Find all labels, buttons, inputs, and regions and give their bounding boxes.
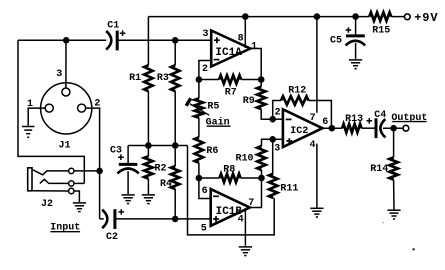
node IC1A inv junction — [196, 76, 203, 83]
svg-text:R5: R5 — [207, 101, 219, 112]
connector J1 XLR body — [41, 83, 92, 134]
wire bias to C3 — [127, 146, 129, 164]
svg-text:R11: R11 — [280, 183, 298, 194]
plus IC2 noninv — [286, 138, 292, 144]
wire R12 left riser — [273, 101, 281, 120]
svg-text:3: 3 — [56, 69, 62, 80]
wire C5 from rail — [355, 17, 357, 35]
resistor R6 — [195, 137, 203, 163]
wire R6 to pin6 node — [198, 163, 200, 178]
wire left branch down to J2 ring — [18, 40, 84, 183]
svg-text:1: 1 — [27, 99, 33, 110]
op-amp IC2 — [283, 109, 323, 147]
svg-text:R10: R10 — [235, 154, 253, 165]
op-amp IC1B — [211, 189, 250, 226]
ground at R14 — [387, 209, 400, 211]
minus IC1B inv — [213, 195, 219, 197]
resistor R11 — [269, 174, 277, 198]
wire J1 pin2 right and down — [86, 108, 100, 219]
capacitor C5 — [346, 34, 365, 37]
svg-text:2: 2 — [94, 99, 100, 110]
underline Gain — [207, 125, 231, 127]
J2 ring contact arm — [40, 179, 69, 183]
wire IC2 pin3 — [273, 138, 283, 140]
resistor R12 — [281, 96, 309, 104]
wire R3 to bias node — [174, 91, 176, 145]
wire R2 top stub — [147, 146, 149, 157]
terminal +9V — [404, 14, 410, 20]
node IC2 output junction — [329, 125, 336, 132]
resistor R14 — [389, 157, 397, 179]
wire J2 ring up-left handled above stub — [74, 182, 84, 184]
wire R15 to +9V terminal — [391, 16, 404, 18]
wire C4 to output terminal — [383, 127, 403, 129]
svg-text:R3: R3 — [157, 73, 169, 84]
svg-text:IC2: IC2 — [290, 126, 308, 137]
stray mark — [413, 248, 415, 250]
J1 pin 3 contact — [62, 88, 70, 96]
ground at R2 — [142, 194, 155, 196]
node IC1B inv junction — [196, 175, 203, 182]
wire IC1B pin4 to ground — [244, 210, 246, 246]
wire R10 top to IC2 pin3 node — [262, 139, 273, 146]
wire R5 top lead — [198, 80, 200, 99]
node IC1B fb junction — [258, 175, 265, 182]
svg-text:R14: R14 — [370, 164, 388, 175]
wire into C2 — [100, 218, 104, 220]
wire input top rail (C1 node) — [18, 39, 106, 41]
capacitor C1 — [106, 31, 111, 50]
pot arrow R5 — [190, 104, 209, 115]
connector J2 jack body — [28, 168, 32, 191]
plus IC1B noninv — [213, 216, 219, 222]
node pin8 rail junction — [242, 13, 249, 20]
resistor R2 — [144, 156, 152, 178]
wire R13 to C4 — [362, 127, 375, 129]
svg-text:C1: C1 — [107, 20, 119, 31]
wire R5 to R6 — [198, 118, 200, 138]
J2 tip contact arm — [33, 170, 69, 175]
svg-text:R6: R6 — [206, 146, 218, 157]
wire IC1A output — [250, 49, 261, 80]
node R3 top junction — [172, 37, 179, 44]
ground at C5 — [349, 59, 362, 61]
resistor R13 — [342, 124, 361, 132]
svg-text:8: 8 — [238, 33, 244, 44]
svg-text:R2: R2 — [154, 164, 166, 175]
svg-text:5: 5 — [201, 223, 207, 234]
svg-text:6: 6 — [322, 117, 328, 128]
node IC2 noninv junction — [269, 136, 276, 143]
wire R7 right lead — [241, 79, 261, 81]
node R4 bottom junction — [172, 216, 179, 223]
wire IC2 pin4 to ground — [316, 144, 318, 208]
terminal Output — [403, 125, 409, 131]
plus C1 — [120, 30, 126, 36]
plus C5 — [346, 27, 352, 33]
wire C3 to ground — [127, 171, 129, 194]
wire bias node — [128, 145, 187, 147]
wire R8 right lead — [241, 177, 262, 179]
resistor R3 — [171, 65, 179, 91]
svg-text:R15: R15 — [372, 26, 390, 37]
wire R8 left lead — [199, 177, 220, 179]
svg-text:C3: C3 — [110, 146, 122, 157]
wire J2 tip to junction — [74, 170, 100, 172]
ground at IC1B pin4 — [239, 246, 252, 248]
wire R1 to bias node — [147, 91, 149, 145]
svg-text:C4: C4 — [374, 110, 386, 121]
node IC2 pin7 rail junction — [314, 13, 321, 20]
svg-text:J2: J2 — [41, 199, 53, 210]
wire IC2 pin2 — [273, 118, 283, 120]
minus IC2 inv — [286, 118, 292, 120]
resistor R15 — [369, 12, 391, 20]
plus C3 — [118, 154, 124, 160]
wire C1 to IC1A pin 3 — [118, 39, 211, 41]
wire R14 to ground — [393, 180, 395, 210]
wire R7 left lead — [199, 79, 219, 81]
wire C5 to ground — [355, 43, 357, 59]
wire rail corner down R1 — [147, 17, 149, 66]
node output junction — [390, 125, 397, 132]
svg-text:6: 6 — [202, 186, 208, 197]
wire J1 pin3 up — [65, 40, 67, 88]
svg-text:C2: C2 — [106, 232, 118, 243]
wire R4 to bottom input — [174, 189, 176, 219]
svg-text:R12: R12 — [288, 86, 306, 97]
op-amp IC1A — [211, 31, 250, 67]
wire R2 to ground — [147, 179, 149, 194]
ground at C3 — [122, 194, 135, 196]
node IC2 inv junction — [269, 116, 276, 123]
resistor R1 — [144, 65, 152, 91]
wire R9 top lead — [260, 80, 262, 87]
svg-text:1: 1 — [251, 42, 257, 53]
svg-text:4: 4 — [309, 140, 315, 151]
ground at IC2 pin4 — [310, 207, 323, 209]
svg-text:R8: R8 — [223, 164, 235, 175]
wire C2 to IC1B pin 5 — [115, 218, 211, 220]
plus C4 — [367, 118, 373, 124]
ground at J1 pin1 — [22, 126, 35, 128]
wire bias reference run — [188, 146, 275, 235]
svg-text:+9V: +9V — [414, 11, 438, 25]
plus IC1A noninv — [214, 37, 220, 43]
J2 ring terminal — [69, 181, 74, 186]
resistor R4 — [171, 166, 179, 189]
svg-text:R4: R4 — [160, 179, 172, 190]
resistor R7 — [219, 75, 241, 83]
capacitor C3 — [119, 163, 138, 166]
J1 pin 1 contact — [45, 104, 53, 112]
resistor R9 — [257, 87, 265, 110]
wire R4 top stub — [174, 146, 176, 167]
wire IC2 output — [322, 127, 342, 129]
node bias R3/R4 — [172, 142, 179, 149]
resistor R8 — [220, 174, 241, 182]
svg-text:7: 7 — [310, 113, 316, 124]
svg-text:R13: R13 — [345, 114, 363, 125]
wire R14 top lead — [393, 128, 395, 157]
J1 pin 2 contact — [78, 104, 86, 112]
node XLR pin3 junction — [63, 37, 70, 44]
wire R11 top lead — [272, 139, 274, 173]
wire filtered V+ rail — [148, 16, 369, 18]
J2 tip terminal — [69, 168, 74, 173]
minus IC1A inv — [214, 59, 220, 61]
underline Output — [392, 121, 426, 123]
wire R12 right to output — [309, 101, 332, 129]
J2 sleeve line — [32, 190, 69, 192]
svg-text:4: 4 — [238, 214, 244, 225]
wire R9 bottom to IC2 pin2 node — [261, 109, 273, 119]
plus C2 — [119, 209, 125, 215]
wire R3 leads — [174, 40, 176, 65]
svg-text:2: 2 — [275, 108, 281, 119]
wire pin6 node to IC1B pin6 — [199, 178, 211, 199]
ground at J2 sleeve — [73, 202, 86, 204]
node C5 rail junction — [352, 13, 359, 20]
svg-text:C5: C5 — [330, 35, 342, 46]
resistor R10 — [257, 146, 265, 170]
node IC1A output junction — [258, 76, 265, 83]
svg-text:R1: R1 — [129, 73, 141, 84]
J2 sleeve terminal — [69, 188, 74, 193]
wire IC1A pin2 — [199, 61, 211, 80]
svg-text:3: 3 — [274, 144, 280, 155]
svg-text:2: 2 — [202, 64, 208, 75]
wire IC1B output — [250, 178, 262, 208]
node J1 pin2 / J2 tip junction — [96, 168, 103, 175]
svg-text:R9: R9 — [243, 96, 255, 107]
wire IC1A pin8 to rail — [244, 17, 246, 48]
svg-text:3: 3 — [202, 29, 208, 40]
svg-text:J1: J1 — [58, 141, 70, 152]
underline Input — [50, 231, 80, 233]
svg-text:R7: R7 — [225, 87, 237, 98]
node bias R1/R2 — [145, 142, 152, 149]
resistor R5 (gain pot) — [195, 98, 203, 117]
wire J1 pin1 to ground — [28, 108, 45, 125]
svg-text:IC1A: IC1A — [215, 47, 242, 59]
wire IC2 pin7 to rail — [316, 17, 318, 113]
wire R10 bottom lead — [261, 170, 263, 178]
wire J2 sleeve to ground — [74, 191, 79, 202]
capacitor C2 — [102, 210, 107, 229]
capacitor C4 — [375, 118, 378, 138]
